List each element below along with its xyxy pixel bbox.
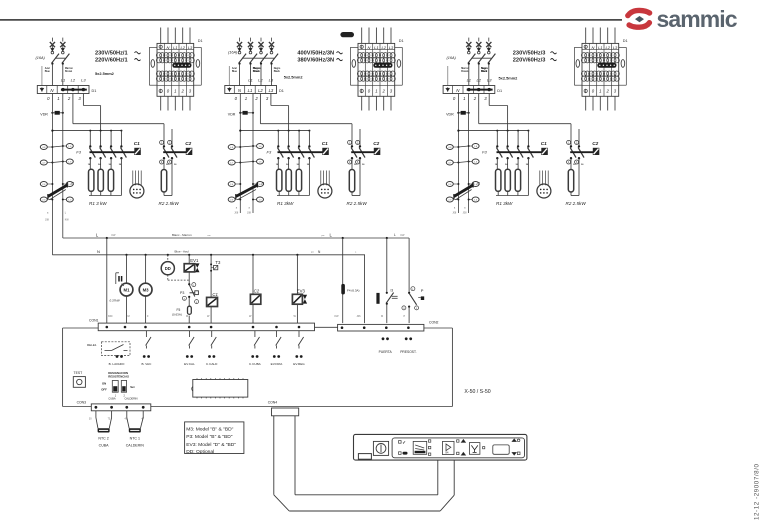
svg-text:(16A): (16A) — [36, 56, 46, 60]
svg-text:TEST: TEST — [74, 371, 83, 375]
svg-text:L3: L3 — [389, 45, 394, 50]
svg-text:VDR: VDR — [446, 113, 454, 117]
svg-text:D1: D1 — [198, 39, 203, 43]
svg-text:M: M — [186, 315, 188, 318]
svg-text:pw: pw — [322, 235, 325, 237]
svg-text:L2: L2 — [71, 78, 76, 83]
svg-text:L2: L2 — [381, 45, 386, 50]
svg-text:CALDERIN: CALDERIN — [124, 397, 137, 401]
svg-text:D1: D1 — [92, 89, 97, 93]
svg-text:M3: Model "B" & "BD": M3: Model "B" & "BD" — [186, 427, 233, 433]
svg-text:L2: L2 — [258, 78, 263, 83]
svg-text:RESISTENCIAS: RESISTENCIAS — [108, 375, 129, 379]
svg-text:F4 (6.3A): F4 (6.3A) — [347, 288, 360, 292]
svg-text:L2: L2 — [180, 45, 185, 50]
svg-text:DD: DD — [165, 266, 171, 271]
svg-text:M: M — [128, 315, 130, 318]
svg-text:C.CUBA: C.CUBA — [249, 362, 262, 366]
svg-text:CON1: CON1 — [89, 319, 99, 323]
svg-text:F3: F3 — [482, 150, 487, 155]
svg-text:Black: Black — [253, 71, 260, 73]
svg-text:(16A): (16A) — [228, 51, 238, 55]
svg-text:M3: M3 — [143, 287, 150, 292]
svg-text:✓: ✓ — [402, 440, 406, 445]
svg-text:L1: L1 — [248, 78, 252, 83]
svg-text:Azul: Azul — [45, 67, 50, 70]
svg-text:I3: I3 — [391, 289, 394, 293]
svg-text:OFF: OFF — [101, 387, 107, 391]
svg-text:L3: L3 — [269, 88, 274, 93]
svg-text:C2: C2 — [254, 289, 260, 294]
svg-text:J06: J06 — [357, 315, 362, 318]
svg-text:RELE1: RELE1 — [87, 343, 97, 347]
svg-text:2: 2 — [606, 89, 610, 94]
svg-text:380V/60Hz/3N: 380V/60Hz/3N — [297, 57, 334, 63]
svg-text:J08: J08 — [452, 212, 457, 215]
svg-text:CON4: CON4 — [268, 401, 278, 405]
svg-text:Negro: Negro — [481, 68, 488, 70]
svg-text:EV.REG: EV.REG — [293, 362, 305, 366]
svg-text:KW: KW — [335, 315, 340, 318]
svg-text:EV3: Model "D" & "BD": EV3: Model "D" & "BD" — [186, 442, 236, 448]
svg-text:Brown: Brown — [461, 71, 469, 73]
svg-text:L1: L1 — [173, 45, 177, 50]
svg-text:CUBA: CUBA — [99, 443, 110, 447]
svg-text:J08: J08 — [247, 212, 252, 215]
svg-text:Blanc - Marron: Blanc - Marron — [172, 233, 192, 237]
svg-text:I1: I1 — [262, 182, 265, 186]
svg-text:220V/60Hz/1: 220V/60Hz/1 — [95, 57, 128, 63]
svg-text:EV1: EV1 — [190, 258, 199, 263]
svg-text:N: N — [368, 45, 371, 50]
svg-text:pw: pw — [311, 252, 314, 254]
svg-text:C2: C2 — [185, 141, 191, 146]
svg-text:CON3: CON3 — [77, 401, 87, 405]
svg-text:C2: C2 — [373, 141, 379, 146]
svg-text:L3: L3 — [269, 78, 274, 83]
svg-text:L3: L3 — [487, 78, 492, 83]
svg-text:R1 3 kW: R1 3 kW — [89, 201, 107, 206]
svg-text:Black: Black — [274, 71, 281, 73]
svg-text:Marron: Marron — [65, 68, 73, 70]
svg-text:sammic: sammic — [657, 6, 738, 32]
svg-text:F5: F5 — [177, 308, 181, 312]
svg-text:P: P — [421, 288, 424, 293]
svg-text:EV3: EV3 — [297, 289, 306, 294]
svg-text:B. VAC: B. VAC — [141, 362, 152, 366]
svg-text:R2 2.5kW: R2 2.5kW — [159, 201, 180, 206]
svg-text:L1: L1 — [248, 88, 253, 93]
svg-text:C1: C1 — [322, 141, 328, 146]
svg-text:C1: C1 — [134, 141, 140, 146]
svg-text:R2 2.5kW: R2 2.5kW — [566, 201, 587, 206]
svg-text:J08: J08 — [463, 212, 468, 215]
svg-text:L2: L2 — [476, 78, 481, 83]
svg-text:(16A): (16A) — [447, 56, 457, 60]
svg-text:P3: P3 — [180, 291, 184, 295]
svg-text:2: 2 — [382, 89, 386, 94]
svg-text:D1: D1 — [497, 89, 502, 93]
svg-text:PRESOST.: PRESOST. — [400, 350, 416, 354]
svg-text:F3: F3 — [267, 150, 272, 155]
svg-text:CUBA: CUBA — [108, 397, 115, 401]
svg-text:C2: C2 — [592, 141, 598, 146]
svg-text:CON2: CON2 — [429, 320, 439, 324]
svg-text:T3: T3 — [215, 260, 221, 265]
svg-text:L1: L1 — [467, 78, 471, 83]
svg-text:Black: Black — [481, 71, 488, 73]
svg-text:5x2.5mm2: 5x2.5mm2 — [499, 76, 519, 81]
svg-text:C1: C1 — [541, 141, 547, 146]
svg-text:F3: F3 — [76, 150, 81, 155]
svg-text:VDR: VDR — [40, 113, 48, 117]
svg-text:L1: L1 — [374, 45, 378, 50]
svg-text:EV.CAL: EV.CAL — [184, 362, 195, 366]
svg-text:Blue - Azul: Blue - Azul — [175, 250, 190, 254]
svg-text:L3: L3 — [188, 45, 193, 50]
svg-text:2: 2 — [473, 96, 477, 101]
svg-text:L1: L1 — [61, 78, 65, 83]
svg-text:12-12 -29007/8/0: 12-12 -29007/8/0 — [754, 463, 761, 520]
svg-text:Brown: Brown — [65, 71, 73, 73]
svg-text:230V/50Hz/1: 230V/50Hz/1 — [95, 51, 128, 57]
svg-text:R1 3kW: R1 3kW — [496, 201, 513, 206]
svg-text:DD: Optional: DD: Optional — [186, 449, 214, 455]
svg-text:Negro: Negro — [274, 68, 281, 70]
svg-text:220V/60Hz/3: 220V/60Hz/3 — [513, 57, 546, 63]
svg-text:D1: D1 — [399, 39, 404, 43]
svg-text:230V/50Hz/3: 230V/50Hz/3 — [513, 51, 546, 57]
svg-text:EV.FRIA: EV.FRIA — [271, 362, 284, 366]
svg-text:Blue: Blue — [232, 71, 238, 73]
svg-text:VDR: VDR — [228, 113, 236, 117]
svg-text:J08: J08 — [45, 219, 50, 222]
svg-text:X-50 / S-50: X-50 / S-50 — [464, 389, 490, 395]
svg-text:0.37kW: 0.37kW — [110, 299, 121, 303]
svg-text:(0.63A): (0.63A) — [172, 313, 182, 317]
svg-text:L: L — [394, 233, 396, 237]
svg-text:NTC 1: NTC 1 — [130, 436, 140, 440]
svg-text:K60: K60 — [108, 315, 113, 318]
svg-text:PUERTA: PUERTA — [379, 350, 393, 354]
svg-text:Azul: Azul — [232, 67, 237, 70]
svg-text:N: N — [592, 45, 595, 50]
svg-text:L2: L2 — [258, 88, 263, 93]
svg-text:Negro: Negro — [253, 68, 260, 70]
svg-text:2: 2 — [181, 89, 185, 94]
svg-text:NTC 2: NTC 2 — [98, 436, 108, 440]
svg-text:C1: C1 — [212, 292, 218, 297]
svg-text:Blue: Blue — [45, 71, 51, 73]
svg-text:M1: M1 — [124, 287, 131, 292]
svg-text:Marron: Marron — [461, 68, 469, 70]
svg-text:J08: J08 — [234, 212, 239, 215]
svg-text:ON: ON — [102, 381, 106, 385]
svg-text:R1 3kW: R1 3kW — [277, 201, 294, 206]
svg-text:N: N — [167, 45, 170, 50]
svg-text:D1: D1 — [623, 39, 628, 43]
svg-text:I1: I1 — [71, 182, 74, 186]
svg-text:L2: L2 — [605, 45, 610, 50]
svg-text:B. LAVADO: B. LAVADO — [109, 362, 125, 366]
svg-text:CALDERIN: CALDERIN — [126, 443, 145, 447]
svg-text:5x2.5mm2: 5x2.5mm2 — [284, 75, 304, 80]
svg-text:L1: L1 — [598, 45, 602, 50]
svg-text:M: M — [381, 315, 383, 318]
svg-text:R2 2.5kW: R2 2.5kW — [347, 201, 368, 206]
svg-text:I1: I1 — [477, 182, 480, 186]
svg-text:L3: L3 — [613, 45, 618, 50]
svg-text:P3: Model "B" & "BD": P3: Model "B" & "BD" — [186, 434, 233, 440]
svg-text:Set: Set — [130, 385, 134, 389]
svg-text:C.CALD: C.CALD — [206, 362, 218, 366]
svg-text:N: N — [97, 249, 100, 254]
svg-text:L3: L3 — [81, 78, 86, 83]
svg-text:D1: D1 — [279, 89, 284, 93]
svg-text:5x2.5mm2: 5x2.5mm2 — [95, 71, 115, 76]
svg-text:400V/50Hz/3N: 400V/50Hz/3N — [297, 51, 334, 57]
